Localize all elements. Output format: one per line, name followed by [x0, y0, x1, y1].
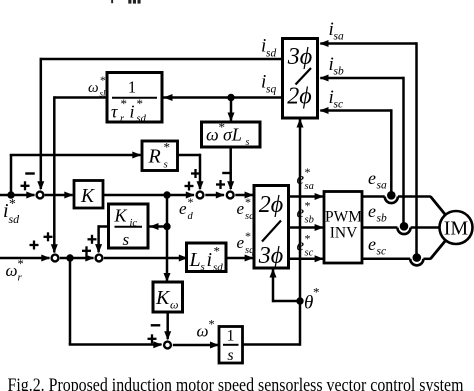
svg-text:*: *: [305, 199, 311, 213]
svg-text:3ϕ: 3ϕ: [287, 44, 312, 70]
svg-text:sc: sc: [305, 248, 314, 259]
svg-text:d: d: [188, 211, 194, 222]
svg-text:sb: sb: [377, 213, 387, 225]
svg-text:s: s: [201, 261, 205, 273]
svg-text:sb: sb: [305, 215, 314, 226]
svg-text:*: *: [18, 257, 24, 271]
svg-text:*: *: [137, 96, 144, 111]
svg-text:*: *: [305, 165, 311, 179]
svg-text:ω: ω: [197, 322, 209, 341]
svg-text:θ: θ: [304, 293, 313, 314]
svg-text:*: *: [100, 75, 106, 87]
svg-text:2ϕ: 2ϕ: [259, 192, 283, 218]
svg-text:ω: ω: [6, 261, 18, 280]
svg-text:sa: sa: [305, 181, 314, 192]
svg-text:3ϕ: 3ϕ: [258, 243, 283, 269]
svg-text:sb: sb: [334, 66, 344, 78]
svg-text:sc: sc: [377, 246, 387, 258]
svg-text:ω: ω: [88, 80, 99, 96]
svg-text:e: e: [297, 169, 305, 188]
svg-text:2ϕ: 2ϕ: [287, 84, 311, 110]
svg-text:e: e: [297, 203, 305, 222]
svg-text:σL: σL: [223, 125, 242, 145]
svg-text:1: 1: [128, 78, 136, 97]
svg-text:sq: sq: [245, 245, 254, 256]
svg-text:*: *: [9, 196, 16, 211]
svg-text:*: *: [245, 195, 251, 209]
svg-text:e: e: [179, 199, 187, 218]
svg-text:*: *: [313, 285, 320, 300]
svg-text:*: *: [214, 244, 221, 259]
svg-text:*: *: [209, 318, 215, 332]
svg-text:sa: sa: [377, 180, 387, 192]
svg-text:IM: IM: [444, 218, 469, 240]
svg-text:e: e: [297, 236, 305, 255]
svg-text:*: *: [121, 96, 128, 111]
svg-text:*: *: [305, 232, 311, 246]
svg-text:sd: sd: [137, 114, 147, 125]
svg-text:e: e: [368, 168, 376, 188]
svg-text:e: e: [368, 234, 376, 254]
svg-text:sd: sd: [245, 211, 255, 222]
svg-text:PWM: PWM: [325, 209, 362, 226]
svg-text:ω: ω: [170, 298, 178, 312]
svg-text:*: *: [188, 195, 194, 209]
svg-text:L: L: [189, 249, 201, 271]
svg-text:sd: sd: [213, 262, 223, 274]
svg-text:1: 1: [227, 328, 235, 345]
svg-text:r: r: [18, 272, 23, 284]
svg-text:INV: INV: [330, 225, 358, 242]
svg-text:R: R: [148, 146, 161, 168]
svg-text:s: s: [123, 230, 130, 249]
svg-text:K: K: [80, 186, 95, 207]
svg-text:Fig.2. Proposed induction moto: Fig.2. Proposed induction motor speed se…: [8, 375, 464, 391]
svg-text:sa: sa: [334, 31, 344, 43]
svg-text:*: *: [245, 229, 251, 243]
svg-text:i: i: [130, 102, 135, 122]
svg-text:τ: τ: [111, 102, 118, 122]
svg-text:ω: ω: [206, 125, 219, 145]
svg-text:sc: sc: [334, 99, 344, 111]
svg-text:s: s: [227, 347, 233, 364]
svg-text:K: K: [114, 206, 128, 226]
svg-text:sl: sl: [100, 89, 107, 99]
svg-text:sd: sd: [266, 48, 276, 60]
svg-text:s: s: [164, 159, 168, 171]
svg-text:e: e: [237, 199, 245, 218]
svg-text:sq: sq: [266, 84, 276, 96]
svg-text:e: e: [237, 233, 245, 252]
svg-text:*: *: [164, 140, 171, 155]
svg-text:s: s: [246, 137, 250, 148]
svg-text:e: e: [368, 201, 376, 221]
svg-text:i: i: [207, 249, 213, 271]
svg-text:K: K: [155, 287, 171, 309]
svg-text:sd: sd: [9, 212, 21, 226]
